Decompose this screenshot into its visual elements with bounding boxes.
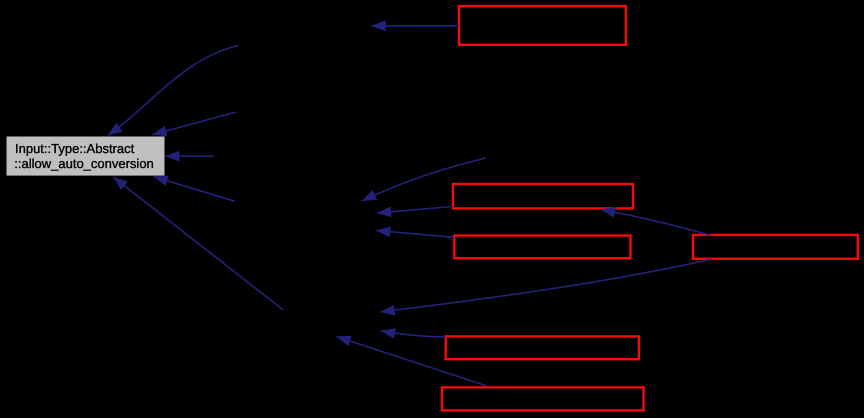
edge E4 <box>166 155 214 157</box>
svg-text:::allow_auto_conversion: ::allow_auto_conversion <box>14 156 153 171</box>
edge E6 <box>113 177 283 310</box>
node: top red box (truncated caller) <box>459 6 626 45</box>
node: right red box <box>693 235 858 259</box>
edge E8 <box>377 207 453 214</box>
node: middle red box 2 <box>454 236 630 259</box>
edge E12 <box>381 331 446 337</box>
edge E9 <box>376 231 454 238</box>
edge E13 <box>337 337 487 386</box>
svg-text:Input::Type::Abstract: Input::Type::Abstract <box>15 141 135 156</box>
edge E11 (curved) <box>381 259 712 312</box>
node: middle red box 1 <box>453 184 633 208</box>
edge E3 <box>153 112 237 135</box>
node: bottom red box <box>442 387 644 410</box>
edge E10 <box>601 210 711 236</box>
node: central grey box <box>7 137 165 176</box>
edge E1: top box -> invisible node <box>372 25 459 27</box>
edge E5 <box>154 177 235 202</box>
node: lower red box <box>446 336 639 359</box>
edge E2: invisible node -> grey box (curved) <box>108 46 239 136</box>
edge E7 (curved) <box>362 158 486 201</box>
